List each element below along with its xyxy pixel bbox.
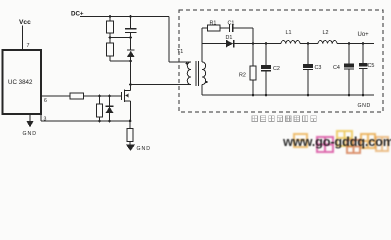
node junction D1-R1C1 [252,42,255,45]
node junction C3 bottom [307,94,310,97]
resistor R2 [239,73,246,79]
svg-text:L1: L1 [286,30,292,36]
svg-text:Uo+: Uo+ [358,32,370,38]
ground GND (sense) [126,145,135,152]
capacitor C3 [315,65,322,71]
node GND label (output) [358,103,371,109]
svg-text:L2: L2 [323,30,329,36]
IC U1 UC3842 [3,50,42,114]
wire output bottom rail [202,94,374,96]
svg-text:GND: GND [137,146,152,152]
node Vcc label [19,19,31,26]
wire pin6 to gate [41,95,122,97]
svg-text:R2: R2 [239,73,246,79]
svg-text:C4: C4 [333,65,340,71]
svg-text:www.go-gddq.com: www.go-gddq.com [282,134,391,149]
node Uo+ label [358,32,370,38]
svg-text:GND: GND [23,131,38,137]
svg-text:6: 6 [44,98,47,104]
wire clamp connector [110,37,131,39]
dashed box output section [179,10,383,112]
node junction gate-zener [108,95,111,98]
transformer T1 primary winding [187,62,191,85]
caption pseudo-CJK glyphs [252,116,316,122]
wire IC ground lead [29,114,31,121]
node junction rail-Rclamp [109,15,112,18]
node junction C4 top [348,42,351,45]
inductor L1 [286,30,292,36]
ground GND (IC) [27,121,34,128]
transformer T1 secondary winding [202,62,206,85]
transistor Q1 MOSFET [121,92,123,100]
node junction source-pin3 [129,120,132,123]
node junction gate-RC [98,95,101,98]
inductor L2 [323,30,329,36]
svg-text:C3: C3 [315,65,322,71]
svg-text:7: 7 [27,43,30,49]
pin 3 label [44,117,47,123]
capacitor C1 [228,20,235,26]
resistor sense (vertical) [129,121,131,145]
svg-text:UC 3842: UC 3842 [8,79,33,86]
resistor gate (horizontal) [70,93,84,99]
wire DC+ rail [80,17,191,63]
svg-text:GND: GND [358,103,371,109]
node junction C5 bottom [362,94,365,97]
resistor clamp lower [110,38,131,62]
pin 7 label [27,43,30,49]
transformer polarity dot primary [186,62,188,64]
node junction C2 bottom [265,94,268,97]
capacitor clamp [130,17,132,29]
transformer T1 label [177,49,183,55]
capacitor C5 [368,63,375,69]
node junction drain [129,83,132,86]
node junction clampR-diode [129,60,132,63]
node junction C2 top [265,42,268,45]
transformer polarity dot secondary [205,81,207,83]
resistor sense-filter (vertical) [99,96,101,121]
node junction R-pin3 [98,120,101,123]
diode zener clamp [109,96,111,106]
svg-text:T1: T1 [177,49,183,55]
node junction rail-Cclamp [129,15,132,18]
wire snubber top [202,27,208,29]
node junction zener-pin3 [108,120,111,123]
wire secondary return [201,85,203,96]
wire Vcc lead [22,26,24,51]
capacitor C4 [333,65,340,71]
diode clamp [127,49,135,51]
diode D1 [226,35,233,41]
resistor clamp upper [109,17,111,38]
node junction C3 top [307,42,310,45]
wire secondary riser [201,28,203,62]
pin 6 label [44,98,47,104]
node junction C4 bottom [348,94,351,97]
wire pin3 rail [41,114,130,121]
svg-text:C2: C2 [273,66,280,72]
svg-text:Vcc: Vcc [19,19,31,26]
wire drain to primary [131,84,192,86]
transformer T1 core [196,61,199,86]
capacitor C2 [273,66,280,72]
resistor R1 [210,20,217,26]
svg-text:C5: C5 [368,63,375,69]
svg-text:3: 3 [44,117,47,123]
node DC+ label [71,11,84,18]
node junction C5 top [362,42,365,45]
node junction R2 bottom [252,94,255,97]
